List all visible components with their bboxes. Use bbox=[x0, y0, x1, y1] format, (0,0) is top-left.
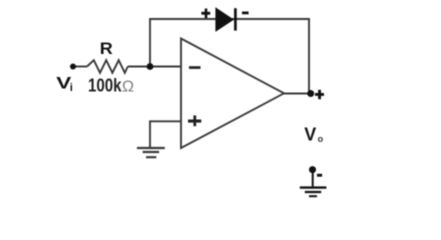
svg-text:Ω: Ω bbox=[122, 79, 134, 96]
svg-text:o: o bbox=[318, 134, 324, 144]
svg-text:100k: 100k bbox=[88, 76, 122, 96]
svg-text:R: R bbox=[100, 40, 113, 58]
svg-text:V: V bbox=[304, 124, 316, 144]
svg-text:i: i bbox=[70, 82, 73, 94]
